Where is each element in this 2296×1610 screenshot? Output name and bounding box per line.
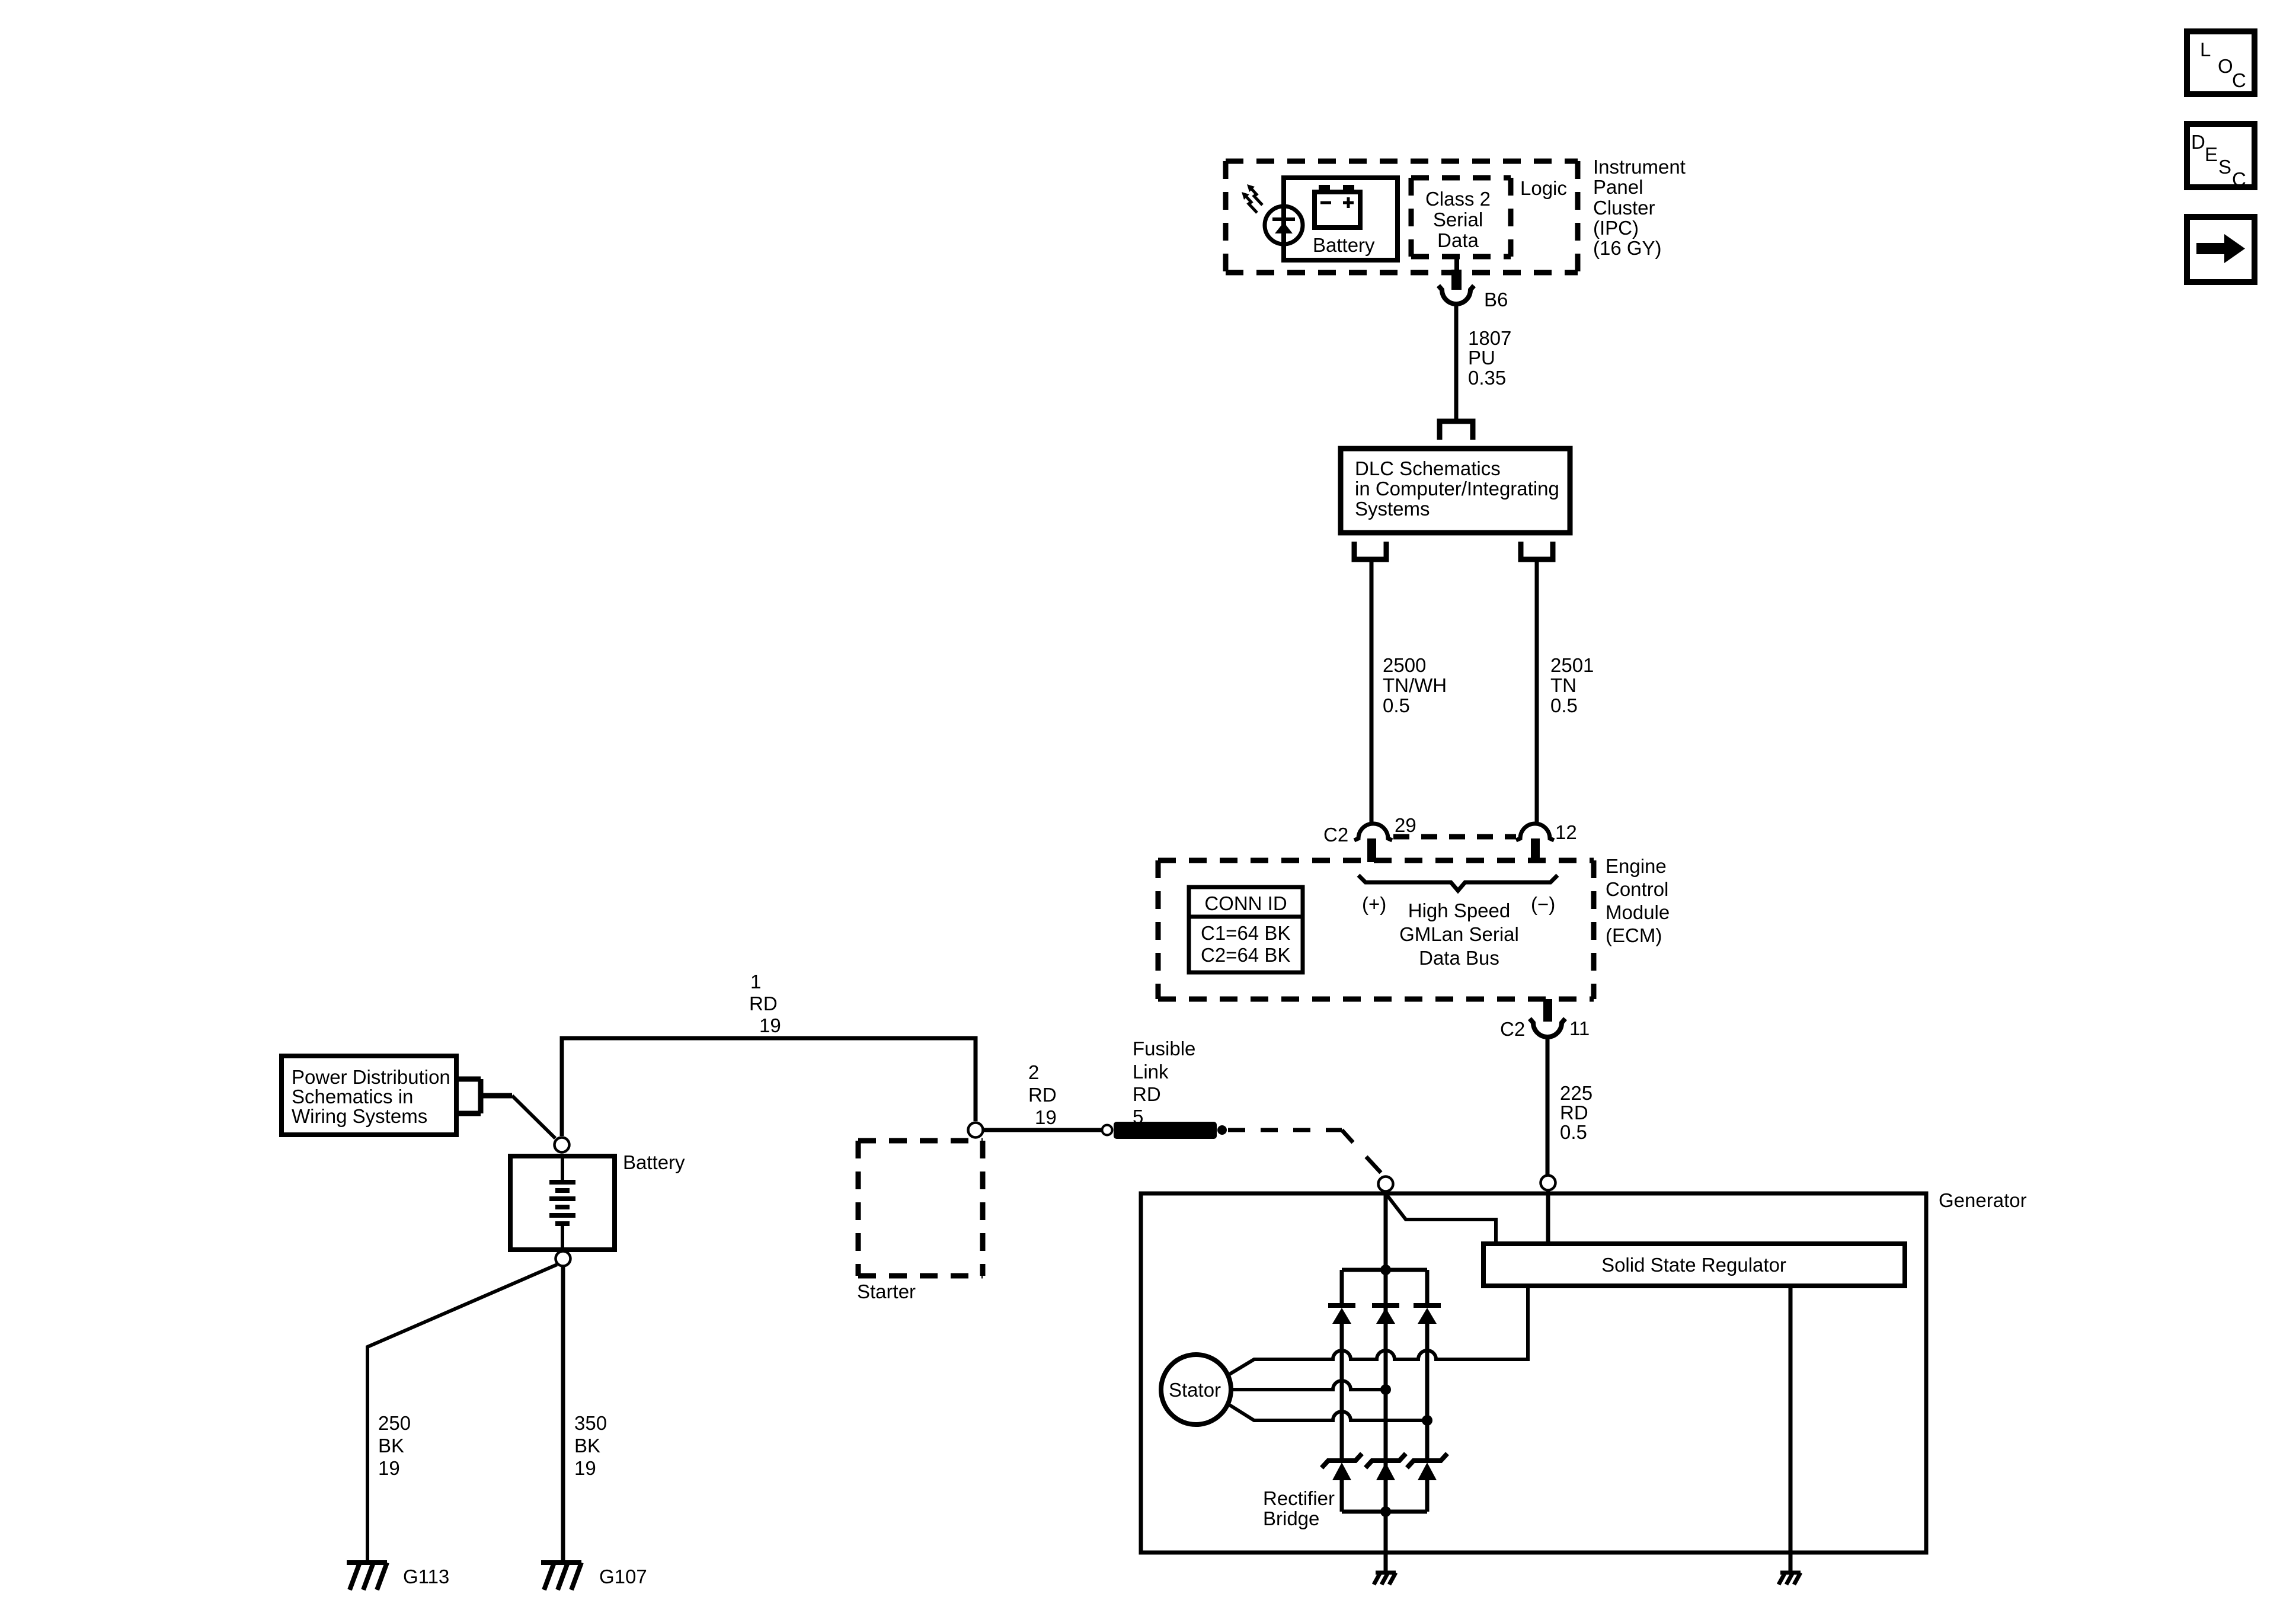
generator box [1141, 1193, 1926, 1553]
node junction bottom bus [1380, 1506, 1391, 1517]
wire battery negative to G113 [367, 1265, 557, 1563]
svg-text:19: 19 [378, 1457, 400, 1479]
svg-text:19: 19 [1035, 1106, 1057, 1128]
battery telltale icon [1315, 185, 1360, 228]
svg-text:B6: B6 [1484, 289, 1508, 311]
label 1 RD 19 [749, 971, 781, 1036]
label 1807 PU 0.35 [1468, 327, 1511, 389]
connector C2 pin 29 dome [1354, 824, 1392, 840]
wire regulator to ground [1789, 1286, 1793, 1571]
svg-text:Data: Data [1437, 229, 1479, 251]
stator winding circle [1161, 1355, 1231, 1425]
svg-text:Data Bus: Data Bus [1419, 947, 1499, 969]
svg-text:DLC Schematics: DLC Schematics [1355, 457, 1501, 479]
wire battery negative to G107 [561, 1266, 565, 1563]
dashed wire fusible link to generator [1228, 1128, 1342, 1132]
module box Instrument Panel Cluster (IPC) dashed [1226, 161, 1578, 273]
label High Speed GMLan Serial Data Bus [1399, 900, 1519, 969]
connector C2 pin 29 male stub [1367, 838, 1376, 862]
box Solid State Regulator [1483, 1244, 1905, 1286]
wire 1 RD 19 [562, 1038, 976, 1136]
battery cell plates [549, 1156, 575, 1250]
label Rectifier Bridge [1263, 1487, 1335, 1529]
node battery negative terminal [556, 1251, 571, 1266]
svg-text:Control: Control [1606, 878, 1668, 900]
label Class 2 Serial Data [1425, 188, 1491, 251]
wire 1807 PU 0.35 [1454, 304, 1459, 419]
svg-text:Systems: Systems [1355, 498, 1430, 520]
svg-text:19: 19 [759, 1014, 781, 1036]
svg-text:Bridge: Bridge [1263, 1507, 1319, 1529]
svg-text:Rectifier: Rectifier [1263, 1487, 1335, 1509]
svg-text:Logic: Logic [1520, 177, 1567, 199]
svg-text:0.5: 0.5 [1550, 694, 1578, 716]
node junction phase middle to center column [1380, 1384, 1391, 1395]
DLC bottom terminal bracket left [1354, 542, 1386, 559]
diode upper center [1372, 1305, 1399, 1324]
svg-text:2500: 2500 [1383, 654, 1426, 676]
wire 225 RD 0.5 [1546, 1037, 1550, 1174]
connector C2 pin 12 male stub [1531, 838, 1540, 862]
svg-text:(−): (−) [1531, 893, 1555, 915]
wire BAT terminal to regulator [1546, 1190, 1550, 1246]
svg-text:Fusible: Fusible [1133, 1038, 1195, 1060]
svg-text:29: 29 [1395, 814, 1416, 836]
starter dashed box [858, 1141, 983, 1276]
rectifier left column middle [1340, 1323, 1344, 1461]
IPC telltale circuit solid box [1284, 178, 1398, 260]
rectifier center column wire [1384, 1192, 1388, 1571]
connector pin B6 male stub [1454, 257, 1459, 270]
svg-text:BK: BK [378, 1435, 404, 1457]
svg-text:C2: C2 [1323, 824, 1348, 846]
node battery positive terminal [555, 1138, 570, 1153]
svg-text:(ECM): (ECM) [1606, 924, 1662, 946]
icon box DESC [2187, 124, 2255, 190]
svg-text:D: D [2191, 131, 2205, 153]
fusible link end dot [1217, 1125, 1227, 1135]
svg-text:E: E [2205, 143, 2218, 165]
svg-text:Module: Module [1606, 901, 1670, 923]
connector C2 pin 11 female cup [1530, 1019, 1565, 1037]
svg-text:Battery: Battery [623, 1151, 685, 1173]
box DLC Schematics [1341, 449, 1570, 533]
svg-text:GMLan Serial: GMLan Serial [1399, 923, 1519, 945]
node generator L terminal [1379, 1177, 1393, 1192]
svg-text:C: C [2232, 168, 2246, 190]
svg-text:Stator: Stator [1169, 1379, 1221, 1401]
label Fusible Link RD 5 [1133, 1038, 1195, 1128]
brace for GMLan bus [1358, 875, 1558, 891]
dashed diagonal wire to generator terminal [1342, 1130, 1381, 1173]
svg-text:Engine: Engine [1606, 855, 1667, 877]
fusible link terminal circle [1102, 1125, 1112, 1135]
svg-text:0.5: 0.5 [1383, 694, 1410, 716]
label Instrument Panel Cluster (IPC) (16 GY) [1593, 156, 1686, 259]
rectifier top bus bar [1342, 1268, 1427, 1272]
rectifier left column upper [1340, 1270, 1344, 1304]
label 350 BK 19 [574, 1412, 607, 1479]
svg-text:L: L [2200, 39, 2211, 60]
label 2501 TN 0.5 [1550, 654, 1594, 716]
icon box arrow [2187, 217, 2255, 282]
svg-text:TN: TN [1550, 674, 1576, 696]
svg-text:RD: RD [1560, 1102, 1588, 1124]
svg-text:0.5: 0.5 [1560, 1121, 1587, 1143]
svg-text:C2: C2 [1500, 1018, 1525, 1040]
stator phase lead middle with hop [1233, 1381, 1386, 1390]
svg-text:PU: PU [1468, 347, 1495, 369]
wire power distribution to battery positive [512, 1096, 555, 1138]
connector pin B6 female cup [1438, 286, 1474, 304]
svg-text:(IPC): (IPC) [1593, 217, 1639, 239]
svg-text:12: 12 [1555, 821, 1577, 843]
svg-text:RD: RD [1133, 1083, 1161, 1105]
label 2 RD 19 [1028, 1061, 1057, 1128]
rectifier right column middle [1425, 1323, 1430, 1461]
svg-text:0.35: 0.35 [1468, 367, 1506, 389]
svg-text:CONN ID: CONN ID [1204, 892, 1287, 914]
light arrows [1242, 184, 1262, 213]
svg-text:19: 19 [574, 1457, 596, 1479]
ground G113 [347, 1563, 387, 1590]
icon box LOC [2187, 31, 2255, 94]
svg-text:Serial: Serial [1433, 209, 1483, 231]
stator phase lead bottom with hop [1229, 1404, 1427, 1420]
svg-text:RD: RD [749, 993, 778, 1014]
svg-text:(+): (+) [1362, 893, 1386, 915]
battery box [510, 1156, 615, 1250]
ground G107 [541, 1563, 581, 1590]
node junction phase bottom to right column [1422, 1415, 1432, 1426]
svg-text:in Computer/Integrating: in Computer/Integrating [1355, 478, 1559, 500]
label Engine Control Module (ECM) [1606, 855, 1670, 946]
svg-text:2501: 2501 [1550, 654, 1594, 676]
rectifier right column upper [1425, 1270, 1430, 1304]
node junction at starter feed [968, 1123, 983, 1138]
svg-text:Solid State Regulator: Solid State Regulator [1601, 1254, 1786, 1276]
svg-text:G113: G113 [403, 1566, 449, 1587]
CONN ID table [1189, 887, 1303, 972]
svg-text:Cluster: Cluster [1593, 197, 1655, 219]
svg-text:Instrument: Instrument [1593, 156, 1686, 178]
svg-text:350: 350 [574, 1412, 607, 1434]
svg-text:O: O [2218, 55, 2233, 77]
svg-text:Generator: Generator [1939, 1189, 2027, 1211]
svg-text:1: 1 [750, 971, 761, 993]
svg-text:TN/WH: TN/WH [1383, 674, 1447, 696]
svg-text:225: 225 [1560, 1082, 1593, 1104]
wire 2501 TN 0.5 [1535, 562, 1539, 822]
svg-text:250: 250 [378, 1412, 411, 1434]
diode lower right avalanche [1407, 1454, 1447, 1480]
label 225 RD 0.5 [1560, 1082, 1593, 1143]
svg-text:Wiring Systems: Wiring Systems [292, 1105, 427, 1127]
logic box Class 2 Serial Data dashed [1411, 178, 1511, 257]
svg-text:High Speed: High Speed [1408, 900, 1510, 921]
power distribution bracket [456, 1079, 512, 1113]
svg-text:11: 11 [1569, 1017, 1590, 1039]
diode upper right [1414, 1305, 1441, 1324]
ground chassis at regulator [1779, 1573, 1801, 1585]
svg-text:Class 2: Class 2 [1425, 188, 1491, 210]
rectifier bottom bus bar [1342, 1510, 1427, 1514]
svg-text:1807: 1807 [1468, 327, 1511, 349]
box Power Distribution Schematics [282, 1056, 456, 1135]
svg-text:C: C [2232, 69, 2246, 91]
diode upper left [1328, 1305, 1355, 1324]
diode lower left avalanche [1322, 1454, 1362, 1480]
label 250 BK 19 [378, 1412, 411, 1479]
svg-text:Schematics in: Schematics in [292, 1086, 413, 1108]
node generator BAT terminal [1541, 1176, 1556, 1190]
svg-text:Panel: Panel [1593, 176, 1643, 198]
svg-text:BK: BK [574, 1435, 600, 1457]
svg-text:Link: Link [1133, 1061, 1169, 1083]
module box Engine Control Module dashed [1158, 860, 1594, 999]
svg-text:C1=64 BK: C1=64 BK [1201, 922, 1290, 944]
rectifier left column lower [1340, 1480, 1344, 1512]
svg-text:(16 GY): (16 GY) [1593, 237, 1662, 259]
rectifier right column lower [1425, 1480, 1430, 1512]
ground chassis at rectifier [1374, 1573, 1396, 1585]
label 2500 TN/WH 0.5 [1383, 654, 1447, 716]
dashed data bus link 29 to 12 [1393, 834, 1516, 840]
svg-text:Battery: Battery [1313, 234, 1375, 256]
svg-text:S: S [2218, 156, 2231, 178]
label Power Distribution Schematics in Wiring Systems [292, 1066, 450, 1127]
node junction top bus [1380, 1265, 1391, 1275]
wire 2500 TN/WH 0.5 [1370, 562, 1374, 822]
DLC bottom terminal bracket right [1521, 542, 1553, 559]
wire 2 RD 19 [984, 1128, 1102, 1132]
wire L terminal switch blade to regulator top [1386, 1193, 1496, 1246]
svg-text:G107: G107 [599, 1566, 647, 1587]
stator phase lead top with hops and wire to regulator [1229, 1288, 1528, 1375]
svg-text:RD: RD [1028, 1084, 1057, 1106]
svg-text:5: 5 [1133, 1106, 1143, 1128]
svg-text:2: 2 [1028, 1061, 1039, 1083]
svg-text:C2=64 BK: C2=64 BK [1201, 944, 1290, 966]
diode lower center avalanche [1366, 1454, 1406, 1480]
label DLC Schematics in Computer/Integrating Systems [1355, 457, 1559, 520]
connector C2 pin 11 male stub [1543, 999, 1552, 1022]
DLC male terminal bracket [1440, 421, 1473, 440]
connector C2 pin 12 dome [1516, 824, 1554, 840]
LED indicator lamp [1265, 178, 1303, 260]
fusible link element [1114, 1122, 1217, 1139]
svg-text:Power Distribution: Power Distribution [292, 1066, 450, 1088]
svg-text:Starter: Starter [857, 1281, 916, 1302]
